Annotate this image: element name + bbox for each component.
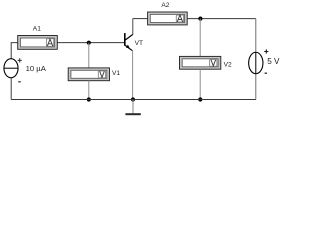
svg-text:10 µA: 10 µA (26, 64, 47, 73)
ground (125, 100, 140, 116)
wire A2 right to top-right corner (187, 18, 256, 20)
wire collector to A2 (133, 18, 148, 20)
voltage source V 5V (249, 52, 263, 74)
wire V1 bottom to ground rail (88, 81, 90, 100)
plus sign of 5V source (264, 49, 268, 53)
svg-text:VT: VT (135, 40, 143, 47)
right vertical wire (255, 19, 257, 100)
current source I 10uA (4, 59, 18, 78)
junction dot top right (198, 17, 202, 21)
wire node down to V2 (199, 19, 201, 57)
minus sign of current source (18, 81, 20, 83)
svg-text:5 V: 5 V (267, 57, 280, 66)
junction dot bottom middle-right (198, 97, 202, 101)
voltmeter V1 (68, 68, 109, 81)
wire A1 right to transistor base (58, 42, 125, 44)
plus sign of current source (18, 58, 22, 62)
svg-text:A2: A2 (161, 2, 169, 9)
wire from current source top to A1 left (11, 43, 18, 59)
node junction dot on base wire (87, 41, 91, 45)
ammeter A1 (18, 36, 58, 50)
ammeter A2 (148, 12, 188, 25)
svg-text:A1: A1 (33, 25, 41, 32)
junction dot at ground tap (131, 97, 135, 101)
svg-text:V2: V2 (224, 62, 232, 69)
voltmeter V2 (180, 56, 221, 69)
wire V2 bottom to ground rail (199, 69, 201, 99)
junction dot bottom left (87, 97, 91, 101)
minus sign of 5V source (265, 72, 267, 74)
bottom rail wire (11, 99, 256, 101)
emitter wire down (132, 51, 134, 100)
svg-text:V1: V1 (112, 70, 120, 77)
wire current source bottom to rail (10, 78, 12, 100)
wire node down to V1 top (88, 43, 90, 68)
transistor VT (124, 19, 133, 51)
